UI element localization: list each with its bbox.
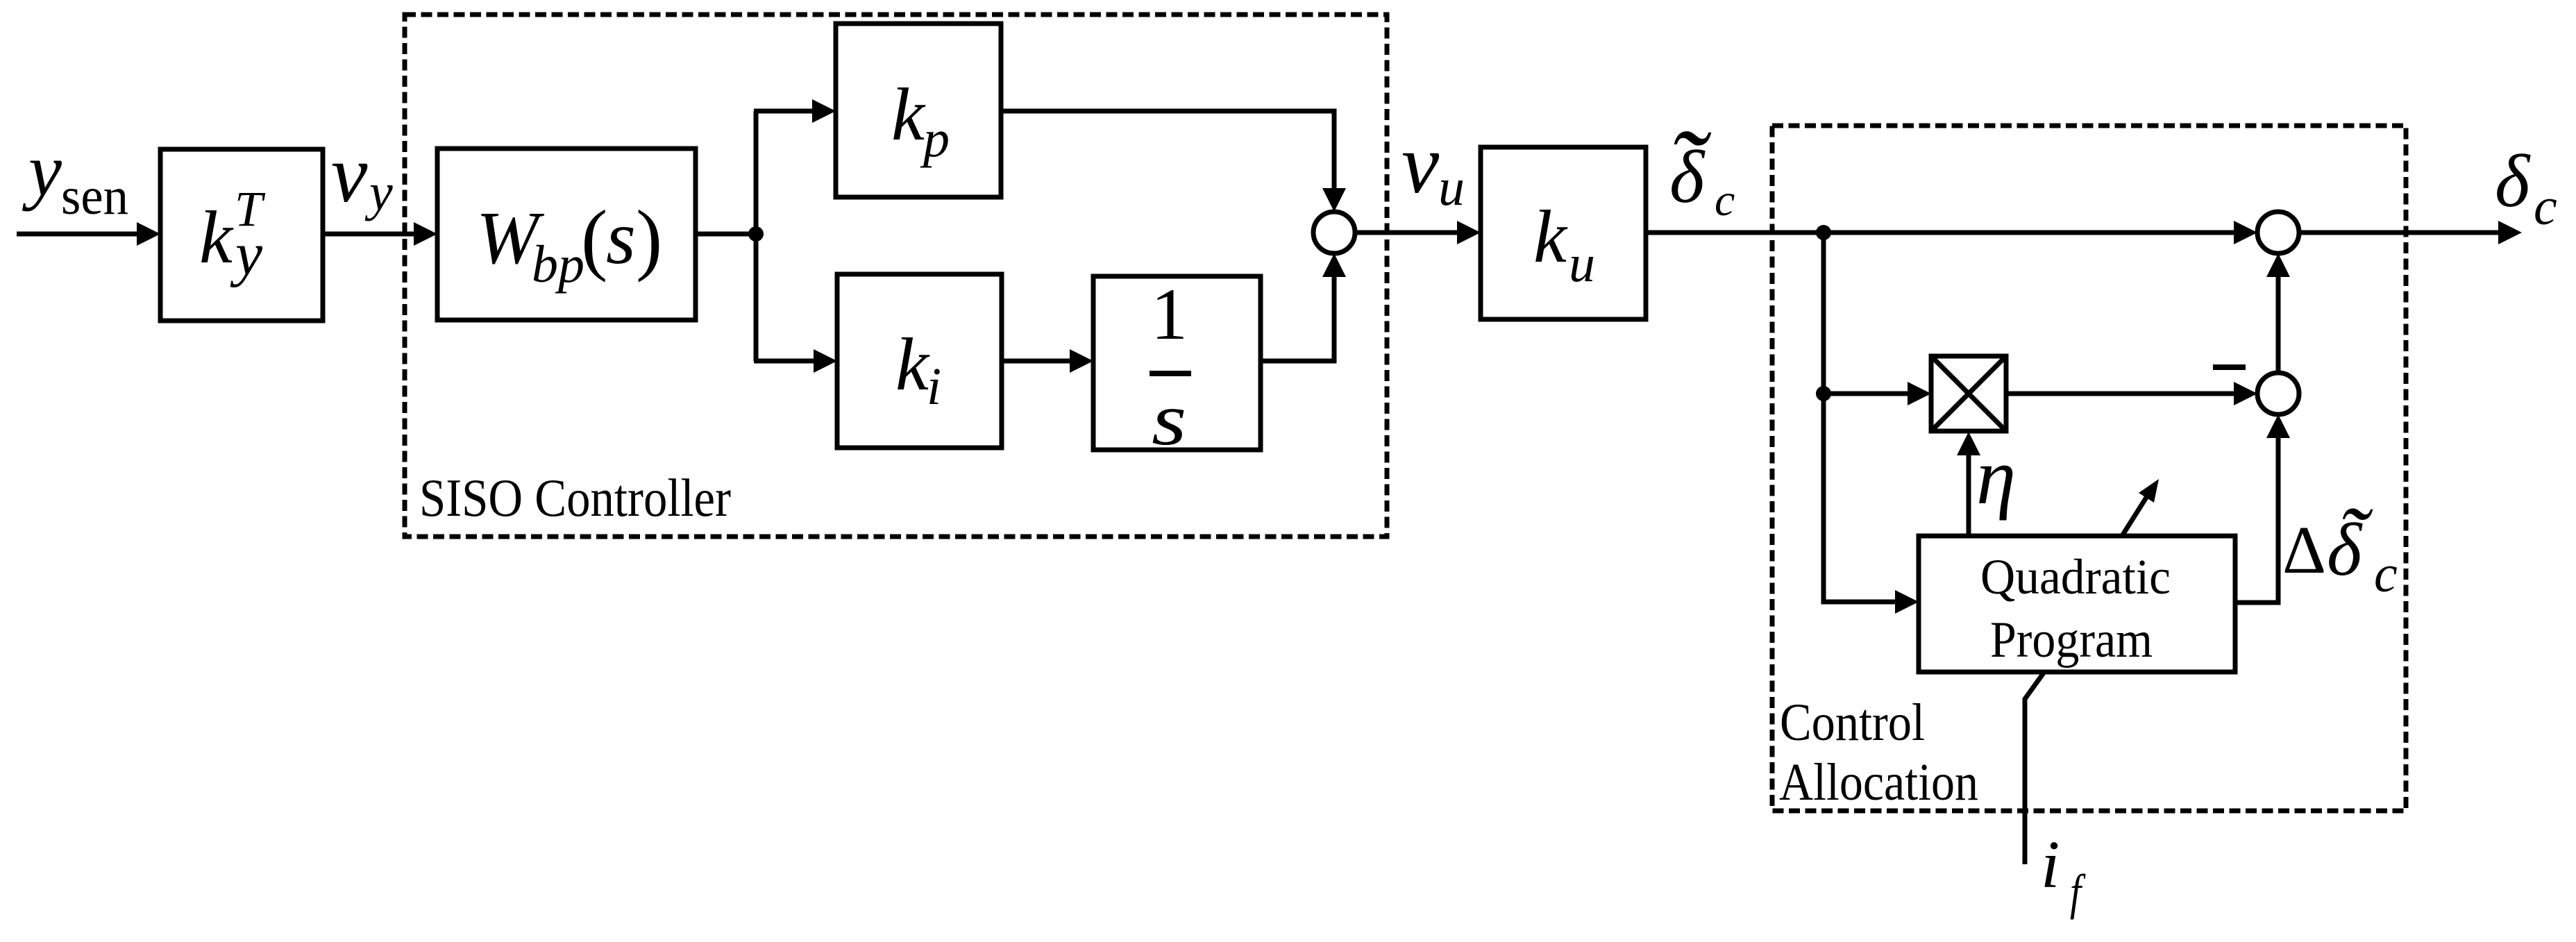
- svg-text:p: p: [920, 110, 950, 168]
- wire sum to k_u: [1355, 230, 1457, 235]
- svg-text:Δ: Δ: [2282, 513, 2326, 588]
- wire node to multiplier: [1824, 392, 1908, 396]
- svg-text:c: c: [2374, 545, 2398, 603]
- wire k_p to summing junction: [1001, 111, 1334, 190]
- summing junction SISO: [1313, 212, 1355, 253]
- svg-text:k: k: [891, 74, 926, 156]
- svg-text:k: k: [895, 323, 930, 406]
- node branch dot middle: [1816, 386, 1831, 401]
- wire output delta_c: [2299, 230, 2498, 235]
- svg-text:bp: bp: [532, 235, 584, 294]
- block k_p: [836, 24, 1001, 197]
- svg-text:v: v: [1401, 117, 1440, 211]
- block 1/s integrator: [1093, 276, 1261, 450]
- wire 1/s to summing junction: [1261, 276, 1334, 361]
- svg-text:Program: Program: [1990, 612, 2153, 668]
- svg-text:(: (: [581, 194, 607, 283]
- wire QP output Delta delta_c: [2235, 438, 2278, 603]
- svg-text:i: i: [2041, 827, 2060, 902]
- svg-text:c: c: [2534, 178, 2557, 236]
- wire minus junction to top junction: [2276, 277, 2281, 373]
- svg-text:η: η: [1976, 432, 2016, 521]
- summing junction minus: [2257, 373, 2299, 414]
- wire k_i to 1/s: [1002, 359, 1070, 364]
- svg-text:k: k: [1533, 196, 1568, 278]
- wire k_y to W_bp: [323, 232, 414, 237]
- wire vertical from node down to QP: [1824, 233, 1895, 602]
- wire input y_sen: [17, 232, 137, 237]
- wire vertical branch: [754, 111, 759, 361]
- svg-text:k: k: [199, 196, 234, 279]
- wire k_u to top summing junction: [1646, 230, 2234, 235]
- node junction dot: [748, 226, 764, 242]
- wire i_f input: [2025, 672, 2044, 864]
- block k_u: [1481, 147, 1646, 319]
- svg-text:s: s: [606, 195, 636, 280]
- svg-text:sen: sen: [61, 167, 128, 226]
- svg-text:SISO Controller: SISO Controller: [419, 468, 731, 528]
- wire multiplier to minus summing junction: [2006, 392, 2234, 396]
- svg-text:): ): [636, 194, 662, 283]
- wire branch to k_p: [754, 109, 812, 114]
- svg-text:u: u: [1438, 158, 1465, 217]
- dashed box SISO Controller: [405, 15, 1387, 537]
- multiplier box: [1931, 356, 2006, 431]
- node branch dot top: [1816, 225, 1831, 240]
- svg-text:u: u: [1569, 235, 1595, 293]
- svg-text:1: 1: [1151, 274, 1188, 355]
- svg-text:s: s: [1152, 378, 1186, 461]
- svg-text:Control: Control: [1780, 693, 1925, 752]
- block k_y^T: [160, 149, 323, 321]
- svg-text:v: v: [331, 128, 368, 219]
- wire branch to k_i: [754, 359, 814, 364]
- wire eta from QP to multiplier: [1967, 454, 1971, 536]
- svg-text:Allocation: Allocation: [1779, 753, 1978, 811]
- wire W_bp to node: [696, 232, 756, 237]
- svg-text:y: y: [364, 163, 393, 221]
- svg-text:y: y: [230, 221, 263, 288]
- block W_bp(s): [437, 149, 696, 320]
- svg-text:Quadratic: Quadratic: [1980, 549, 2171, 605]
- svg-text:c: c: [1715, 175, 1735, 226]
- wire adaptation diagonal arrow: [2122, 496, 2147, 536]
- block k_i: [837, 274, 1002, 448]
- svg-text:δ: δ: [2495, 140, 2531, 223]
- block Quadratic Program: [1919, 536, 2235, 672]
- minus sign: [2213, 364, 2246, 370]
- summing junction output: [2257, 212, 2299, 253]
- dashed box Control Allocation: [1772, 126, 2406, 811]
- svg-text:i: i: [927, 358, 941, 416]
